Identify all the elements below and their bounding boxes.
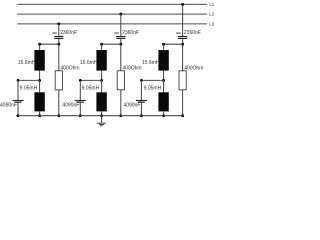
wire down to 4090nF capacitor (phase B): [79, 80, 81, 100]
node dot below capacitor (phase A): [57, 43, 60, 46]
wire 9.05mH to bus (phase A): [39, 111, 41, 115]
wire resistor to bus (phase A): [58, 90, 60, 116]
junction dot at inductor top (phase A): [38, 43, 41, 46]
capacitor 2360nF (phase A): [54, 37, 63, 39]
inductor 9.05mH (phase A): [34, 92, 44, 111]
wire 4090nF capacitor to bus (phase B): [79, 103, 81, 116]
svg-text:2360nF: 2360nF: [122, 30, 139, 36]
node tap dot on L3 (phase A): [57, 22, 60, 25]
svg-text:15.6mH: 15.6mH: [80, 60, 98, 66]
wire to 9.05mH inductor (phase A): [39, 80, 41, 92]
wire below 15.6mH (phase B): [101, 71, 103, 81]
bus dot at inductor column (phase A): [38, 114, 41, 117]
bus dot at inductor column (phase B): [100, 114, 103, 117]
wire line L1: [17, 3, 207, 5]
capacitor 2360nF (phase C): [178, 37, 187, 39]
label tick for 2360nF (phase B): [114, 32, 119, 34]
junction dot mid branch (phase B): [100, 79, 103, 82]
wire node down to resistor (phase A): [58, 44, 60, 71]
junction dot at inductor top (phase B): [100, 43, 103, 46]
wire ground bus: [18, 115, 183, 117]
wire resistor to bus (phase B): [120, 90, 122, 116]
wire branch to 4090nF capacitor (phase C): [141, 79, 163, 81]
svg-text:4090nF: 4090nF: [0, 103, 17, 109]
wire node to inductor column (phase C): [164, 43, 183, 45]
junction dot mid branch (phase C): [162, 79, 165, 82]
wire to 9.05mH inductor (phase C): [163, 80, 165, 92]
node dot below capacitor (phase B): [119, 43, 122, 46]
wire down to 4090nF capacitor (phase A): [17, 80, 19, 100]
wire 9.05mH to bus (phase B): [101, 111, 103, 115]
wire line L2: [17, 13, 207, 15]
corner dot at 4090nF branch (phase C): [140, 79, 143, 82]
svg-text:15.6mH: 15.6mH: [18, 60, 36, 66]
wire resistor to bus (phase C): [182, 90, 184, 116]
wire down to 15.6mH inductor (phase B): [101, 44, 103, 50]
capacitor 4090nF (phase B): [75, 101, 86, 103]
wire node to inductor column (phase A): [40, 43, 59, 45]
wire down to 4090nF capacitor (phase C): [140, 80, 142, 100]
svg-text:L1: L1: [209, 2, 215, 7]
wire branch to 4090nF capacitor (phase B): [80, 79, 101, 81]
label tick for 2360nF (phase C): [176, 32, 181, 34]
svg-text:L3: L3: [209, 22, 215, 27]
label tick for 2360nF (phase A): [52, 32, 57, 34]
wire from L3 down to capacitor (phase A): [58, 24, 60, 36]
svg-text:9.05mH: 9.05mH: [82, 85, 100, 91]
node dot below capacitor (phase C): [181, 43, 184, 46]
capacitor 4090nF (phase C): [136, 101, 147, 103]
bus dot at inductor column (phase C): [162, 114, 165, 117]
resistor 400Ohm (phase A): [55, 71, 62, 90]
inductor 15.6mH (phase C): [158, 50, 168, 71]
wire to 9.05mH inductor (phase B): [101, 80, 103, 92]
node tap dot on L2 (phase B): [119, 13, 122, 16]
junction dot at inductor top (phase C): [162, 43, 165, 46]
wire 9.05mH to bus (phase C): [163, 111, 165, 115]
wire node down to resistor (phase C): [182, 44, 184, 71]
resistor 400Ohm (phase C): [179, 71, 186, 90]
inductor 15.6mH (phase A): [34, 50, 44, 71]
bus dot at resistor column (phase C): [181, 114, 184, 117]
junction dot mid branch (phase A): [38, 79, 41, 82]
wire from L2 down to capacitor (phase B): [120, 14, 122, 36]
bus dot at 4090nF column (phase A): [17, 114, 20, 117]
wire line L3: [17, 23, 207, 25]
bus dot at 4090nF column (phase B): [79, 114, 82, 117]
inductor 9.05mH (phase C): [158, 92, 168, 111]
wire 4090nF capacitor to bus (phase C): [140, 103, 142, 116]
inductor 9.05mH (phase B): [96, 92, 106, 111]
ground: [97, 116, 106, 126]
wire down to 15.6mH inductor (phase C): [163, 44, 165, 50]
resistor 400Ohm (phase B): [117, 71, 124, 90]
wire 4090nF capacitor to bus (phase A): [17, 103, 19, 116]
wire capacitor to node (phase A): [58, 39, 60, 44]
bus dot at 4090nF column (phase C): [140, 114, 143, 117]
svg-text:9.05mH: 9.05mH: [20, 85, 38, 91]
svg-text:2360nF: 2360nF: [60, 30, 77, 36]
svg-text:4090nF: 4090nF: [123, 103, 140, 109]
wire branch to 4090nF capacitor (phase A): [18, 79, 40, 81]
svg-text:15.6mH: 15.6mH: [142, 60, 160, 66]
inductor 15.6mH (phase B): [96, 50, 106, 71]
svg-text:400Ohm: 400Ohm: [184, 66, 203, 72]
svg-text:400Ohm: 400Ohm: [122, 66, 141, 72]
wire capacitor to node (phase B): [120, 39, 122, 44]
wire from L1 down to capacitor (phase C): [182, 4, 184, 36]
wire node to inductor column (phase B): [102, 43, 121, 45]
svg-text:4090nF: 4090nF: [62, 103, 79, 109]
svg-text:400Ohm: 400Ohm: [60, 66, 79, 72]
capacitor 2360nF (phase B): [116, 37, 125, 39]
corner dot at 4090nF branch (phase B): [79, 79, 82, 82]
wire capacitor to node (phase C): [182, 39, 184, 44]
node tap dot on L1 (phase C): [181, 3, 184, 6]
wire below 15.6mH (phase C): [163, 71, 165, 81]
bus dot at resistor column (phase A): [57, 114, 60, 117]
capacitor 4090nF (phase A): [13, 101, 24, 103]
wire node down to resistor (phase B): [120, 44, 122, 71]
corner dot at 4090nF branch (phase A): [17, 79, 20, 82]
bus dot at resistor column (phase B): [119, 114, 122, 117]
svg-text:L2: L2: [209, 12, 215, 17]
svg-text:9.05mH: 9.05mH: [144, 85, 162, 91]
svg-text:2360nF: 2360nF: [184, 30, 201, 36]
wire below 15.6mH (phase A): [39, 71, 41, 81]
wire down to 15.6mH inductor (phase A): [39, 44, 41, 50]
